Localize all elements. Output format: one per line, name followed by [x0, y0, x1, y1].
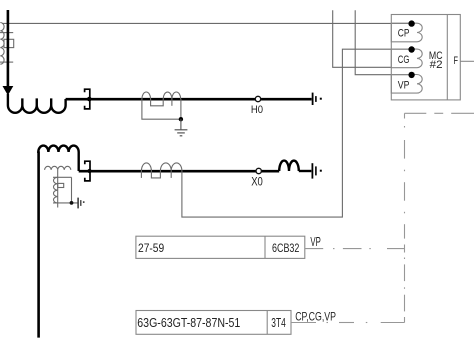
node (CT1 ground junction): [179, 117, 183, 121]
wire (stub A to MC box): [333, 10, 392, 67]
coil CG: [391, 49, 422, 68]
svg-text:#2: #2: [430, 59, 443, 71]
wire (dash-dot vertical riser): [404, 113, 406, 118]
node (aux junction dot): [70, 201, 74, 205]
svg-text:VP: VP: [310, 234, 320, 249]
connector J2 (drawout clips line 2): [85, 161, 90, 181]
wire (from F box): [460, 60, 474, 62]
terminal T1 (line 1 end): [313, 93, 322, 105]
winding W1 (left-edge coil): [0, 23, 4, 65]
node (junction dot J2): [87, 169, 91, 173]
wire (aux loop right): [71, 177, 73, 203]
svg-text:H0: H0: [251, 104, 263, 116]
inductor L3 (line 2 reactor): [279, 161, 299, 171]
fuse F2 (small box): [58, 183, 64, 187]
inductor L1 (transformer T1 primary, down-loops): [8, 94, 66, 113]
wire (CT1 tap stub): [171, 99, 173, 106]
wire (T2 neutral drop): [37, 151, 40, 337]
arrowhead (feeder arrow): [3, 86, 14, 95]
inductor L2 (transformer T2 primary): [38, 146, 78, 171]
wire (aux loop top): [53, 176, 72, 178]
svg-text:6CB32: 6CB32: [272, 241, 300, 255]
wire (tap at y=32.6): [0, 32, 13, 34]
node H0 (open circle): [255, 96, 260, 101]
coil CP: [391, 23, 422, 42]
svg-text:3T4: 3T4: [271, 316, 286, 330]
wire (CT1 secondary loop): [142, 99, 181, 119]
svg-text:VP: VP: [398, 79, 410, 91]
ground: [175, 130, 188, 136]
svg-text:CG: CG: [398, 54, 410, 66]
wire (CP,CG,VP lead dash-dot): [327, 322, 329, 324]
relay box 63G-63GT-87-87N-51 / 3T4: [136, 311, 291, 335]
wire (line 2 tail): [299, 170, 312, 172]
wire (VP lead solid): [291, 113, 474, 322]
transformer CT2 (bushing CT line 2): [141, 163, 182, 178]
wire (stub B to coil VP): [355, 10, 408, 74]
node X0 (open circle): [256, 168, 261, 173]
wire (aux loop bottom): [53, 202, 78, 204]
svg-text:F: F: [454, 55, 459, 67]
wire (tap at y=62.1): [0, 61, 13, 63]
wire (CT2 tap stub): [170, 171, 172, 178]
transformer CT1 (bushing CT line 1): [142, 92, 181, 106]
wire (CP line from bus to coil CP): [2, 22, 408, 24]
winding W2 (T2 secondary): [45, 166, 71, 170]
contactor MC#2 (outer box): [391, 15, 460, 100]
relay box 27-59 / 6CB32: [136, 236, 305, 258]
wire (line 2 main): [79, 170, 280, 173]
node (dot VP): [408, 72, 414, 78]
svg-text:X0: X0: [251, 175, 263, 188]
wire (CP,CG,VP lead solid): [291, 322, 316, 324]
node (dot CP): [408, 20, 414, 26]
svg-text:CP: CP: [398, 28, 410, 40]
connector J1 (drawout clips line 1): [85, 89, 90, 109]
terminal T3 (aux end): [78, 198, 84, 209]
coil VP: [391, 75, 422, 94]
wire (VP lead dash-dot): [333, 248, 335, 250]
node (junction dot J1): [87, 97, 92, 102]
terminal T2 (line 2 end): [312, 163, 321, 178]
wire (CT2 secondary route to coil CG): [182, 49, 409, 217]
fuse F1 (small box on bus): [4, 39, 14, 47]
bus (thick vertical feeder): [7, 10, 10, 87]
wire (dash-dot top run): [405, 112, 427, 114]
svg-text:CP,CG,VP: CP,CG,VP: [295, 310, 336, 324]
wire (secondary center drop): [57, 170, 59, 208]
wire (divider F column): [446, 15, 448, 100]
wire (CT2 left tail): [140, 171, 142, 178]
winding W3 (aux winding, left bumps): [53, 177, 57, 203]
svg-text:27-59: 27-59: [138, 241, 164, 255]
node (dot CG): [408, 46, 414, 52]
wire (ground stem): [180, 119, 182, 130]
svg-text:63G-63GT-87-87N-51: 63G-63GT-87-87N-51: [137, 316, 240, 330]
wire (line 1 main): [66, 98, 312, 101]
